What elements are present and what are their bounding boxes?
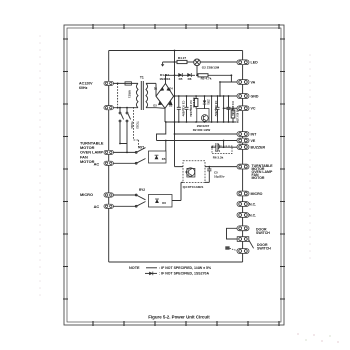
svg-text:R1 2.2k: R1 2.2k (192, 97, 196, 108)
resistor R4 row (175, 60, 194, 63)
pin door switch 1 (237, 226, 249, 231)
varistor VRS1 (117, 83, 119, 107)
svg-text:Figure 5-2. Power Unit Circuit: Figure 5-2. Power Unit Circuit (148, 315, 210, 320)
svg-text:R5 4.7k: R5 4.7k (201, 77, 212, 81)
diode D8 (155, 155, 159, 159)
pin door switch 2 (237, 249, 249, 254)
svg-text:MOTOR: MOTOR (252, 176, 265, 180)
wire INT row (175, 133, 238, 135)
buzzer SP1 (212, 143, 237, 154)
wire secondary bottom to bridge (146, 107, 165, 110)
wire VA row (220, 82, 237, 96)
svg-text:: IF NOT SPECIFIED, 1/4W ± 5%: : IF NOT SPECIFIED, 1/4W ± 5% (159, 266, 212, 270)
svg-text:N.C.: N.C. (249, 202, 256, 206)
svg-text:R6 3.3k: R6 3.3k (213, 155, 224, 159)
pin VA (237, 80, 249, 85)
svg-text:G2 ZS8/12M: G2 ZS8/12M (202, 66, 220, 70)
wire AC row 1 (114, 82, 139, 84)
pin NC2 (237, 213, 249, 218)
capacitor C3 (216, 96, 220, 122)
relay RY1 contact (135, 148, 145, 165)
svg-text:MICRO: MICRO (251, 192, 263, 196)
svg-text:TCO2: TCO2 (135, 121, 139, 129)
svg-text:VRS1: VRS1 (128, 90, 132, 98)
pin VE (237, 138, 249, 143)
door switch bracket (227, 228, 238, 239)
svg-text:LED: LED (251, 61, 259, 65)
svg-text:VA: VA (251, 80, 256, 84)
svg-text:D4: D4 (169, 87, 173, 91)
terminal micro out (104, 193, 114, 197)
page border inner (67, 28, 281, 322)
svg-text:SP1: SP1 (215, 149, 221, 153)
svg-text:AC: AC (94, 162, 100, 167)
faint scan dot column right (309, 54, 311, 259)
pin MICRO (237, 191, 249, 196)
diode D5 (166, 73, 196, 77)
door switch lever (249, 240, 254, 248)
wire bridge bottom to block rail (164, 108, 166, 122)
svg-text:N.C.: N.C. (249, 213, 256, 217)
wire AC common row RY1 (114, 162, 137, 164)
wire AC common row RY2 (114, 205, 137, 207)
svg-text:C3 0.1µ/50v: C3 0.1µ/50v (214, 101, 218, 117)
svg-text:R2 680 1/2W: R2 680 1/2W (193, 128, 211, 132)
pin NC1 (237, 202, 249, 207)
page border outer (64, 25, 284, 325)
wire top rail (109, 50, 243, 52)
thermal cutout branch 2 (126, 108, 131, 153)
svg-text:GND: GND (251, 94, 259, 98)
wire right pin bus (242, 51, 244, 263)
svg-text:TCO1: TCO1 (130, 121, 134, 129)
capacitor C4 (227, 96, 231, 122)
capacitor C1 (177, 96, 181, 122)
svg-text:RY2: RY2 (139, 188, 145, 192)
terminal AC common 2 (104, 204, 114, 208)
mechanical link dashed (134, 107, 139, 148)
diode D7 (155, 199, 159, 203)
svg-text:RY1: RY1 (138, 145, 144, 149)
transformer T1 (136, 81, 147, 110)
wire GND rail (175, 95, 238, 97)
wire column node (223, 96, 225, 122)
svg-text:R3 910 1/2W: R3 910 1/2W (235, 109, 238, 124)
svg-text:10µ/25v: 10µ/25v (214, 174, 225, 178)
svg-text:D5: D5 (179, 77, 183, 81)
relay RY2 coil (149, 195, 173, 208)
thermal cutout branch 1 (119, 108, 127, 144)
svg-text:MOTOR: MOTOR (80, 159, 95, 164)
svg-text:SWITCH: SWITCH (257, 247, 271, 251)
lamp G2 (194, 59, 237, 75)
wire left bus (108, 51, 110, 263)
wire turntable row (114, 151, 137, 153)
svg-text:AC: AC (94, 204, 100, 209)
wire bottom rail (109, 261, 243, 263)
svg-text:C1 0.1µ/50v: C1 0.1µ/50v (181, 101, 185, 117)
wire secondary top to bridge (146, 83, 156, 96)
terminal turntable out (104, 150, 114, 154)
door switch monitor block (225, 246, 229, 249)
terminal AC hot (104, 81, 114, 85)
terminal AC neutral (104, 106, 114, 110)
wire DC vertical rail (175, 51, 184, 167)
junction dots (117, 50, 234, 168)
pin LED (237, 60, 249, 65)
svg-text:Q3 DTC143ES: Q3 DTC143ES (183, 185, 204, 189)
svg-text:AC120V: AC120V (79, 82, 93, 86)
transistor Q3 box (183, 161, 205, 183)
wire micro row (114, 194, 137, 196)
faint scan specks bottom right (297, 333, 339, 343)
pin BUZZER (237, 145, 249, 150)
svg-text:: IF NOT SPECIFIED, 1SS270A: : IF NOT SPECIFIED, 1SS270A (159, 272, 209, 276)
pin GND (237, 94, 249, 99)
relay RY1 coil (149, 151, 167, 163)
resistor R1 (194, 96, 198, 109)
resistor R5 (198, 74, 231, 82)
ground stub (163, 62, 175, 64)
svg-text:R4 27: R4 27 (178, 56, 187, 60)
pin door switch rect (237, 237, 249, 242)
wire column C6 (211, 96, 213, 122)
svg-text:ZD1: ZD1 (207, 99, 211, 105)
wire VE to relay (165, 141, 167, 152)
door switch dashed link (230, 248, 237, 250)
diode D6 (187, 73, 191, 77)
svg-text:D6: D6 (188, 77, 192, 81)
svg-text:MICRO: MICRO (80, 192, 93, 197)
wire VE row (157, 122, 238, 141)
svg-text:VE: VE (251, 139, 256, 143)
svg-text:D6: D6 (162, 201, 166, 205)
wire RY2 to Q3 (172, 182, 183, 200)
wire block bottom rail (165, 121, 236, 123)
terminal AC common 1 (104, 161, 114, 165)
svg-text:1N4004: 1N4004 (159, 77, 170, 81)
border tick marks (63, 24, 285, 326)
zener ZD1 (203, 96, 206, 109)
capacitor C5 (205, 167, 211, 183)
svg-text:VC: VC (251, 107, 256, 111)
capacitor C2 (185, 96, 189, 122)
svg-text:D1: D1 (154, 87, 158, 91)
svg-text:INT: INT (251, 132, 258, 136)
note line 2 (145, 272, 157, 274)
svg-text:NOTE: NOTE (129, 266, 140, 270)
svg-text:D2: D2 (169, 103, 173, 107)
svg-text:60Hz: 60Hz (79, 86, 88, 90)
pin turntable (237, 164, 249, 169)
fuse F1 on AC row (125, 82, 132, 85)
pin INT (237, 132, 249, 137)
wire TT row (205, 166, 237, 168)
faint scan dot column left (39, 35, 41, 296)
wire SP1 feed (223, 141, 225, 148)
relay RY2 contact (135, 194, 145, 207)
wire AC row 2 (114, 107, 139, 109)
svg-text:D5: D5 (162, 157, 166, 161)
bridge rectifier D1-D4 (156, 75, 175, 108)
svg-text:D3: D3 (153, 103, 157, 107)
wire VC row (224, 107, 237, 109)
resistor R3 (231, 108, 235, 122)
svg-text:T1: T1 (140, 76, 144, 80)
pin VC (237, 106, 249, 111)
svg-text:SWITCH: SWITCH (256, 231, 270, 235)
svg-text:BUZZER: BUZZER (251, 145, 266, 149)
transistor Q1 box (197, 109, 209, 122)
